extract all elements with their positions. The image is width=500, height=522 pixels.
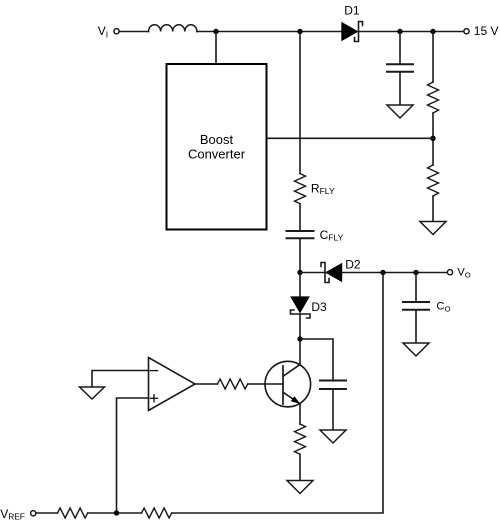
wire R6 to feedback node: [172, 273, 383, 514]
svg-text:VI: VI: [98, 24, 108, 39]
junction dot CO node: [413, 270, 418, 275]
wire D1 cathode to 15V terminal: [359, 31, 464, 33]
wire VREF terminal to R5: [37, 512, 58, 514]
wire D2 node to D3 anode: [299, 273, 301, 297]
wire Boost Converter output to divider mid node: [267, 137, 434, 139]
junction dot divider mid node: [430, 136, 435, 141]
resistor R6: [142, 508, 172, 518]
svg-text:D1: D1: [344, 4, 360, 18]
ground at op-amp inverting input: [80, 387, 105, 399]
svg-text:Converter: Converter: [188, 147, 246, 162]
wire D3 cathode to collector node: [299, 314, 301, 339]
resistor R3 base: [218, 379, 248, 389]
junction dot feedback node: [380, 270, 385, 275]
wire collector node to Q1 collector: [299, 339, 301, 365]
resistor R4 emitter: [295, 424, 306, 454]
svg-text:CFLY: CFLY: [320, 228, 344, 242]
svg-text:D2: D2: [345, 258, 361, 272]
wire RFLY to CFLY: [299, 204, 301, 231]
wire R3 to Q1 base: [248, 383, 283, 385]
svg-text:CO: CO: [436, 301, 450, 314]
wire VI to L1: [120, 31, 149, 33]
wire CO to ground: [415, 310, 417, 343]
ground below C2: [320, 430, 346, 443]
resistor R5: [58, 508, 88, 518]
wire R2 to ground: [432, 196, 434, 222]
op-amp U2: [149, 358, 196, 411]
wire C1 to ground: [399, 72, 401, 105]
svg-text:RFLY: RFLY: [311, 182, 335, 196]
wire Q1 emitter to R4: [299, 404, 301, 424]
wire R4 to ground: [299, 454, 301, 480]
svg-text:VO: VO: [457, 266, 471, 279]
wire op-amp noninverting input to VREF node: [117, 398, 149, 513]
ground below C1: [387, 105, 413, 118]
capacitor CO: [403, 302, 429, 310]
wire CFLY to D2 node: [299, 238, 301, 272]
junction dot divider top node: [430, 29, 435, 34]
wire R1 to divider mid node: [432, 113, 434, 165]
capacitor C2: [320, 381, 346, 390]
wire op-amp inverting input to ground: [92, 371, 149, 388]
node VO terminal: [447, 270, 452, 275]
ground below R4: [287, 481, 313, 494]
Boost Converter block U1: [167, 64, 267, 230]
wire D2 anode to VO terminal: [342, 272, 447, 274]
diode D1: [341, 22, 362, 42]
junction dot C1 node: [397, 29, 402, 34]
junction dot input node: [213, 29, 218, 34]
node 15V terminal: [464, 29, 469, 34]
wire divider top node to R1: [432, 32, 434, 83]
capacitor CFLY: [287, 231, 314, 238]
inductor L1: [149, 25, 197, 32]
junction dot D2 node: [297, 270, 302, 275]
wire C1 node down: [399, 32, 401, 65]
wire input node to Boost Converter top: [215, 32, 217, 65]
resistor R2: [428, 165, 439, 196]
transistor Q1: [265, 361, 311, 407]
diode D3: [290, 296, 310, 318]
wire collector node to C2 branch: [300, 339, 333, 381]
wire C2 to ground: [332, 389, 334, 430]
svg-text:15 V: 15 V: [474, 24, 499, 38]
svg-text:D3: D3: [311, 300, 327, 314]
diode D2: [321, 263, 342, 283]
svg-text:Boost: Boost: [200, 132, 234, 147]
junction dot VREF node: [114, 510, 119, 515]
wire CO node down: [415, 273, 417, 303]
wire L1 to D1 anode: [197, 31, 342, 33]
capacitor C1: [387, 64, 413, 72]
junction dot collector node: [297, 336, 302, 341]
ground below CO: [403, 343, 429, 356]
node VI terminal: [114, 29, 119, 34]
resistor RFLY: [295, 174, 306, 204]
node VREF terminal: [31, 511, 36, 516]
wire op-amp output to R3: [195, 383, 218, 385]
resistor R1: [428, 82, 439, 113]
junction dot switch node: [297, 29, 302, 34]
svg-text:VREF: VREF: [0, 507, 25, 522]
wire switch node down to RFLY: [299, 32, 301, 174]
wire D2 node to D2 cathode: [300, 272, 325, 274]
wire R5 to VREF node: [88, 512, 142, 514]
ground below R2: [420, 222, 446, 235]
